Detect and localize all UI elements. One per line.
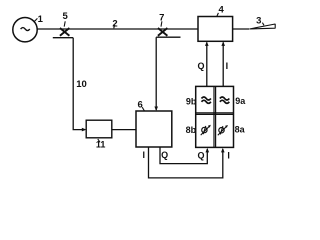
label 11 xyxy=(96,139,106,150)
svg-text:9b: 9b xyxy=(186,96,197,106)
svg-text:5: 5 xyxy=(63,11,69,22)
label I (block input) xyxy=(227,151,230,161)
filter 9a symbol xyxy=(220,97,229,103)
block 8-9 outer frame xyxy=(196,86,234,147)
label 9b xyxy=(186,96,197,106)
wire 10 : tap of coupler 5 down to box 11 xyxy=(73,38,86,132)
wire I : filter 9a up to block 4 xyxy=(221,41,225,86)
svg-text:6: 6 xyxy=(138,99,143,110)
label 8b xyxy=(186,125,197,135)
label I (box 6 output) xyxy=(143,150,146,160)
svg-text:I: I xyxy=(227,151,230,161)
label I (upper) xyxy=(226,61,229,71)
wire I : box 6 bottom to phase shifter 8a xyxy=(149,147,225,178)
phase shifter 8b symbol xyxy=(201,125,211,135)
box 6 (quadrature demodulator) xyxy=(136,111,172,147)
label 9a xyxy=(235,96,246,106)
svg-text:8b: 8b xyxy=(186,125,197,135)
svg-text:1: 1 xyxy=(38,14,44,25)
wire Q : box 6 bottom to phase shifter 8b xyxy=(160,147,209,164)
svg-text:Q: Q xyxy=(161,150,168,160)
coupler 5 (X on line with tap) xyxy=(53,28,73,38)
filter 9b symbol xyxy=(202,97,211,103)
label 6 xyxy=(138,99,145,111)
antenna 3 (wedge / tapered horn) xyxy=(249,24,275,29)
svg-text:11: 11 xyxy=(96,140,106,150)
label 4 xyxy=(217,4,225,16)
wire 2 : main RF line from source to block 4 xyxy=(37,28,249,30)
svg-text:4: 4 xyxy=(219,4,225,15)
block 4 (output stage box) xyxy=(198,17,233,42)
svg-text:I: I xyxy=(143,150,146,160)
coupler 7 (X on line with tap) xyxy=(156,28,180,37)
label 2 xyxy=(112,18,117,29)
label Q (block input) xyxy=(197,151,204,161)
label 5 xyxy=(63,11,69,26)
svg-text:I: I xyxy=(226,61,229,71)
label Q (box 6 output) xyxy=(161,150,168,160)
label 10 xyxy=(76,79,87,90)
label Q (upper) xyxy=(197,61,204,71)
label 8a xyxy=(235,124,246,134)
svg-text:2: 2 xyxy=(112,18,117,29)
label 1 xyxy=(34,14,44,25)
svg-text:8a: 8a xyxy=(235,124,246,134)
box 11 xyxy=(86,120,112,138)
wire Q : filter 9b up to block 4 xyxy=(205,41,209,86)
wire : tap of coupler 7 down into box 6 xyxy=(154,37,158,111)
label 3 xyxy=(256,16,264,27)
oscillator 1 (AC source circle) xyxy=(13,18,37,42)
svg-text:7: 7 xyxy=(159,13,164,24)
svg-text:9a: 9a xyxy=(235,96,246,106)
svg-text:Q: Q xyxy=(197,151,204,161)
phase shifter 8a symbol xyxy=(218,125,228,135)
svg-text:Q: Q xyxy=(197,61,204,71)
svg-text:3: 3 xyxy=(256,16,261,27)
wire : box 11 to box 6 xyxy=(112,129,136,131)
svg-text:10: 10 xyxy=(76,79,87,90)
label 7 xyxy=(159,13,164,27)
